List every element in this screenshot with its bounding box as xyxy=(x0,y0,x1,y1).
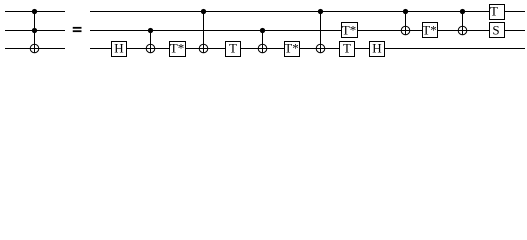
svg-text:T: T xyxy=(490,4,498,19)
svg-text:T*: T* xyxy=(284,41,298,56)
svg-text:T*: T* xyxy=(342,22,356,37)
svg-text:H: H xyxy=(372,41,381,56)
svg-text:T: T xyxy=(229,41,237,56)
svg-text:T: T xyxy=(343,41,351,56)
svg-text:H: H xyxy=(114,41,123,56)
svg-text:T*: T* xyxy=(422,22,436,37)
svg-text:S: S xyxy=(492,22,499,37)
svg-text:T*: T* xyxy=(170,41,184,56)
